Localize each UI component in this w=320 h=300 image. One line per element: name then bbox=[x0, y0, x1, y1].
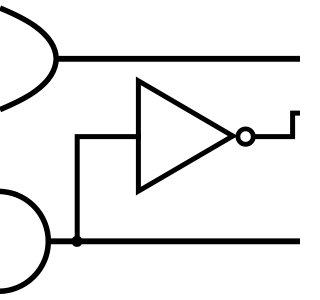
wire inverter input branch bbox=[77, 137, 141, 242]
inverter U3 triangle bbox=[138, 81, 232, 191]
wire U1 output bbox=[54, 56, 300, 62]
junction node dot bbox=[71, 236, 82, 247]
or-gate U1 (partial, left edge) bbox=[0, 8, 56, 110]
wire U2 output bbox=[46, 238, 300, 244]
wire inverter output bbox=[253, 113, 300, 137]
inverter U3 bubble bbox=[238, 129, 253, 144]
and-gate U2 (partial, bottom left) bbox=[0, 191, 48, 291]
